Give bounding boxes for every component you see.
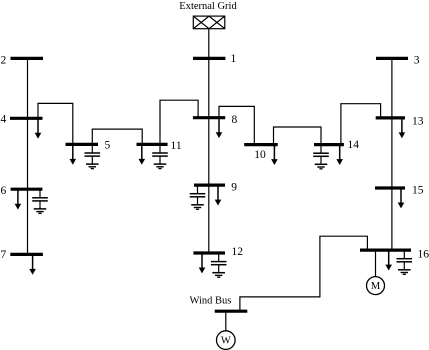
load arrow bus6 [15, 189, 22, 209]
wire bus8 to bus10 [219, 106, 254, 144]
ground bus14 capacitor [315, 164, 328, 169]
bus 11 busbar [137, 143, 168, 146]
svg-text:13: 13 [412, 115, 424, 127]
bus 4 busbar [10, 117, 43, 120]
svg-text:1: 1 [231, 53, 237, 65]
wire bus13 to bus14 [341, 104, 381, 145]
wire bus3 to bus13 to bus15 to bus16 [391, 58, 393, 250]
wire bus10 to bus14 [274, 127, 322, 145]
ground bus6 capacitor [34, 209, 47, 214]
bus 3 busbar [376, 57, 408, 60]
load arrow bus9 [215, 185, 222, 205]
external grid symbol U-EG [193, 16, 225, 29]
bus 7 busbar [10, 253, 43, 256]
ground bus9 capacitor [191, 205, 204, 210]
wire external-grid to bus1 to bus8 to bus9 to bus12 [208, 29, 210, 253]
svg-text:5: 5 [105, 140, 111, 152]
wire bus4 to bus5 [38, 103, 73, 144]
ground bus12 capacitor [212, 273, 225, 278]
wire bus16 to motor M [375, 250, 377, 277]
svg-text:15: 15 [412, 184, 424, 196]
shunt capacitor bus9 [190, 185, 206, 205]
motor M [367, 277, 385, 295]
bus 6 busbar [11, 188, 43, 191]
bus 1 busbar [193, 57, 225, 60]
shunt capacitor bus16 [397, 250, 413, 270]
svg-text:10: 10 [254, 149, 266, 161]
load arrow bus8 [216, 118, 223, 138]
bus 12 busbar [193, 251, 225, 254]
svg-text:14: 14 [348, 139, 360, 151]
wire bus2 to bus4 to bus6 to bus7 [27, 58, 29, 254]
shunt capacitor bus14 [313, 145, 329, 165]
bus 10 busbar [244, 143, 278, 146]
load arrow bus12 [199, 253, 206, 273]
svg-text:9: 9 [231, 181, 237, 193]
load arrow bus10 [271, 145, 278, 165]
bus 5 busbar [66, 143, 99, 146]
load arrow bus15 [398, 188, 405, 208]
svg-text:Wind Bus: Wind Bus [190, 296, 232, 307]
shunt capacitor bus12 [211, 253, 227, 273]
load arrow bus11 [139, 144, 146, 164]
wire bus11 to bus8 [160, 100, 198, 144]
wire windbus to generator W [225, 311, 227, 331]
svg-text:8: 8 [232, 114, 238, 126]
shunt capacitor bus11 [152, 144, 168, 164]
load arrow bus14 [336, 145, 343, 165]
svg-text:M: M [371, 281, 381, 292]
shunt capacitor bus6 [32, 189, 48, 209]
ground bus16 capacitor [398, 270, 411, 275]
bus 16 busbar [360, 249, 411, 252]
load arrow bus5 [70, 144, 77, 164]
bus Wind Bus busbar [215, 310, 248, 313]
svg-text:4: 4 [1, 113, 7, 125]
svg-text:External Grid: External Grid [179, 1, 237, 12]
svg-text:6: 6 [1, 185, 7, 197]
svg-text:16: 16 [418, 248, 429, 260]
svg-text:2: 2 [1, 54, 7, 66]
svg-text:11: 11 [171, 140, 182, 152]
bus 15 busbar [375, 186, 405, 189]
svg-text:7: 7 [1, 249, 7, 261]
wire windbus to bus16 [240, 236, 368, 311]
load arrow bus16 [385, 250, 392, 270]
svg-text:3: 3 [414, 54, 420, 66]
svg-text:12: 12 [232, 246, 244, 258]
ground bus5 capacitor [86, 164, 99, 169]
bus 13 busbar [376, 116, 405, 119]
bus 8 busbar [193, 116, 225, 119]
load arrow bus13 [399, 118, 406, 138]
bus 14 busbar [314, 143, 344, 146]
wire bus5 to bus11 [92, 129, 142, 144]
wind generator W [217, 331, 236, 350]
load arrow bus4 [35, 118, 42, 138]
ground bus11 capacitor [154, 164, 167, 169]
shunt capacitor bus5 [85, 144, 101, 164]
load arrow bus7 [29, 254, 36, 274]
bus 2 busbar [11, 57, 44, 60]
bus 9 busbar [194, 184, 225, 187]
svg-text:W: W [221, 336, 231, 347]
